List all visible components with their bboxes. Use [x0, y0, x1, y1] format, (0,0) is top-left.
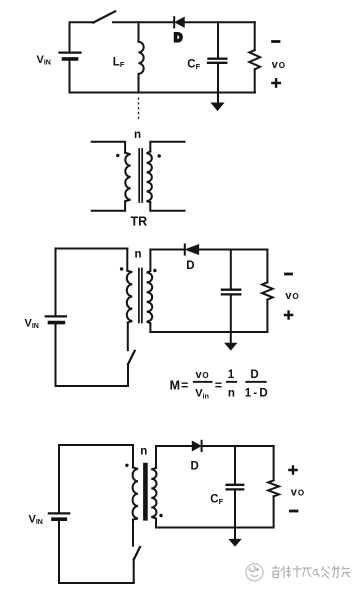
wire secondary top rail right (middle circuit) — [199, 249, 268, 251]
diode D (middle circuit) triangle — [186, 245, 199, 255]
svg-text:vO: vO — [285, 290, 298, 302]
resistor load (middle circuit) lower lead — [266, 300, 268, 332]
TR core bar right — [141, 149, 143, 202]
capacitor (middle circuit) bottom plate — [222, 293, 240, 295]
capacitor CF (bottom circuit) top plate — [227, 484, 244, 486]
wire left rail lower (battery to bottom rail) — [69, 59, 71, 93]
wire top rail right (diode to output corner) — [184, 21, 255, 23]
switch S (top circuit) — [93, 11, 115, 22]
transformer core bars (middle circuit) — [139, 269, 142, 323]
svg-text:VIN: VIN — [37, 54, 51, 67]
resistor load (bottom circuit) lower lead — [273, 496, 275, 527]
capacitor CF (bottom circuit) bottom plate — [227, 488, 244, 490]
ground (middle circuit) stub — [230, 332, 232, 344]
watermark logo circle — [246, 564, 263, 581]
transformer primary lead (middle circuit) — [126, 249, 128, 271]
diode D (top circuit) triangle — [175, 18, 184, 28]
diode D (bottom circuit) cathode bar — [201, 441, 203, 451]
wire top rail primary (middle circuit) — [56, 249, 128, 317]
inductor LF upper lead — [138, 22, 140, 42]
svg-text:1-D: 1-D — [245, 387, 270, 399]
TR primary phase dot — [116, 154, 119, 157]
svg-text:vO: vO — [272, 59, 285, 71]
resistor load (top circuit) zigzag — [249, 50, 260, 69]
resistor load (bottom circuit) zigzag — [268, 480, 279, 496]
TR primary winding — [125, 153, 131, 201]
wire bottom rail primary (bottom circuit) — [59, 582, 134, 584]
formula fraction bar 3 — [245, 381, 266, 383]
svg-text:D: D — [191, 460, 199, 472]
ground (top circuit) stub — [217, 93, 219, 104]
battery VIN (middle circuit) short thick plate — [50, 321, 64, 325]
ground (bottom circuit) stub — [234, 528, 236, 541]
battery VIN (bottom circuit) long plate — [49, 512, 69, 514]
svg-text:=: = — [181, 379, 188, 393]
diode D (bottom circuit) triangle — [192, 441, 200, 450]
battery VIN (top circuit) short thick plate — [64, 57, 77, 61]
svg-text:LF: LF — [113, 57, 125, 70]
TR core bar left — [138, 149, 140, 202]
svg-text:M: M — [170, 379, 180, 393]
label plus (middle circuit output) — [285, 311, 292, 318]
battery VIN (top circuit) long plate — [60, 51, 81, 53]
wire top rail middle (switch to diode) — [113, 21, 174, 23]
resistor load (middle circuit) zigzag — [262, 282, 273, 299]
switch stub (middle circuit) — [127, 323, 129, 351]
ground (top circuit) triangle — [212, 103, 224, 110]
capacitor (middle circuit) lower lead — [230, 296, 232, 333]
TR primary top lead — [92, 142, 125, 153]
svg-text:=: = — [215, 379, 222, 393]
formula fraction bar 2 — [226, 381, 237, 383]
wire top rail left (VIN to switch) — [70, 22, 94, 52]
svg-text:VIN: VIN — [29, 514, 43, 527]
capacitor (middle circuit) upper lead — [230, 250, 232, 289]
label plus (bottom circuit output) — [289, 466, 296, 473]
capacitor CF (bottom circuit) upper lead — [234, 446, 236, 484]
TR primary bottom lead — [92, 201, 125, 211]
capacitor CF (top circuit) top plate — [209, 58, 227, 60]
label minus (top circuit output) — [273, 40, 279, 43]
transformer core bar (bottom circuit) — [143, 465, 148, 518]
transformer primary winding (middle circuit) — [127, 271, 133, 323]
wire left rail lower (bottom circuit) — [58, 519, 60, 583]
svg-text:n: n — [135, 249, 142, 261]
wire secondary top rail (middle circuit) — [150, 249, 184, 251]
svg-text:vO: vO — [291, 486, 304, 498]
battery VIN (bottom circuit) short thick plate — [53, 517, 65, 521]
diode D (top circuit) cathode bar — [173, 17, 175, 27]
wire top rail primary (bottom circuit) — [59, 445, 133, 513]
resistor load (middle circuit) upper lead — [266, 250, 268, 283]
wire switch to bottom rail (middle circuit) — [127, 364, 129, 386]
resistor load (top circuit) upper lead — [254, 22, 256, 50]
ground (middle circuit) triangle — [225, 343, 236, 350]
switch lever (middle circuit) — [128, 351, 135, 364]
svg-text:D: D — [250, 369, 258, 381]
transformer secondary winding (bottom circuit) — [151, 446, 156, 528]
transformer primary lead (bottom circuit) — [132, 445, 134, 467]
watermark text 硬件十万个为什么 (simulated strokes) — [272, 566, 351, 579]
wire secondary bottom rail (middle circuit) — [150, 331, 267, 333]
svg-text:n: n — [228, 387, 235, 399]
wire left rail lower (middle circuit) — [55, 323, 57, 386]
svg-text:vO: vO — [196, 369, 209, 381]
capacitor CF (top circuit) upper lead — [217, 22, 219, 57]
svg-text:CF: CF — [210, 494, 223, 507]
transformer secondary winding (middle circuit) — [147, 250, 153, 333]
diode D (middle circuit) cathode bar — [184, 244, 186, 254]
svg-text:D: D — [186, 260, 194, 272]
TR secondary phase dot — [158, 154, 161, 157]
resistor load (bottom circuit) upper lead — [273, 446, 275, 480]
dashed link line — [138, 98, 140, 121]
svg-text:Vin: Vin — [195, 387, 209, 400]
capacitor CF (top circuit) lower lead — [217, 64, 219, 93]
resistor load (top circuit) lower lead — [254, 69, 256, 92]
battery VIN (middle circuit) long plate — [46, 315, 66, 317]
svg-text:1: 1 — [228, 369, 235, 381]
TR secondary bottom lead — [150, 202, 184, 210]
inductor LF coil — [139, 42, 144, 74]
wire bottom rail primary (middle circuit) — [56, 385, 129, 387]
secondary phase dot (bottom circuit) — [159, 514, 162, 517]
switch stub (bottom circuit) — [132, 520, 134, 546]
svg-text:n: n — [134, 129, 141, 141]
ground (bottom circuit) triangle — [229, 539, 240, 546]
secondary phase dot (middle circuit) — [153, 269, 156, 272]
label minus (middle circuit output) — [286, 273, 292, 276]
primary phase dot (bottom circuit) — [125, 464, 128, 467]
TR secondary top lead — [150, 142, 184, 152]
svg-text:VIN: VIN — [25, 318, 39, 331]
svg-text:TR: TR — [131, 215, 148, 229]
svg-text:D: D — [174, 33, 182, 45]
wire secondary top rail (bottom circuit) — [156, 445, 192, 447]
capacitor (middle circuit) top plate — [222, 289, 240, 291]
inductor LF lower lead — [138, 74, 140, 93]
TR secondary winding — [147, 152, 152, 203]
label minus (bottom circuit output) — [290, 510, 297, 513]
primary phase dot (middle circuit) — [120, 267, 123, 270]
switch lever (bottom circuit) — [134, 547, 140, 560]
wire secondary top rail right (bottom circuit) — [202, 445, 274, 447]
formula fraction bar 1 — [193, 381, 213, 383]
wire secondary bottom rail (bottom circuit) — [156, 527, 274, 529]
label plus (top circuit output) — [272, 79, 279, 86]
capacitor CF (bottom circuit) lower lead — [234, 491, 236, 528]
transformer primary winding (bottom circuit) — [133, 467, 138, 519]
wire bottom rail (top circuit) — [70, 92, 256, 94]
svg-text:CF: CF — [187, 58, 200, 71]
watermark logo inner marks — [249, 566, 255, 572]
capacitor CF (top circuit) bottom plate — [208, 62, 226, 64]
svg-text:n: n — [140, 445, 147, 457]
wire switch to bottom rail (bottom circuit) — [133, 560, 135, 583]
